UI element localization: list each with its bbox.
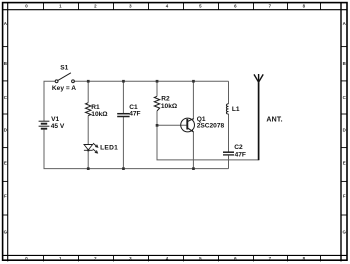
node top R2 xyxy=(156,80,159,83)
svg-text:R2: R2 xyxy=(161,96,170,103)
svg-text:G: G xyxy=(4,230,8,235)
wire emitter xyxy=(192,132,194,169)
ruler numbers top xyxy=(25,4,305,9)
wire switch right to top rail end at L1 xyxy=(74,80,229,82)
ruler letters left xyxy=(4,21,8,235)
resistor R2 xyxy=(154,96,159,111)
antenna xyxy=(254,74,263,160)
transistor Q1 xyxy=(181,118,195,132)
svg-text:10kΩ: 10kΩ xyxy=(161,103,178,110)
svg-text:Key = A: Key = A xyxy=(52,85,76,92)
resistor R1 xyxy=(86,103,91,116)
node bottom C1 xyxy=(122,167,125,170)
switch S1 xyxy=(55,73,74,83)
svg-text:D: D xyxy=(4,127,7,132)
svg-text:V1: V1 xyxy=(51,116,59,123)
node top R1 xyxy=(87,80,90,83)
node bottom R1 xyxy=(87,167,90,170)
wire C1 branch xyxy=(122,81,124,113)
svg-text:G: G xyxy=(342,230,346,235)
capacitor C2 xyxy=(223,152,234,155)
svg-text:10kΩ: 10kΩ xyxy=(91,111,108,118)
wire C2 bottom xyxy=(228,156,230,169)
wire battery bottom to bottom rail xyxy=(44,130,229,169)
ruler tick separators top xyxy=(44,3,321,10)
ruler tick separators bottom xyxy=(44,255,321,261)
capacitor C1 xyxy=(117,114,129,117)
node bottom emitter xyxy=(192,167,195,170)
ruler tick separators left xyxy=(3,47,8,215)
svg-text:F: F xyxy=(4,193,7,198)
LED1 junction blob xyxy=(87,149,89,151)
svg-text:C2: C2 xyxy=(234,144,243,151)
svg-text:F: F xyxy=(343,193,346,198)
svg-text:S1: S1 xyxy=(60,64,68,71)
wire L1 branch xyxy=(228,81,230,104)
node base R2 xyxy=(156,124,159,127)
svg-text:45 V: 45 V xyxy=(51,123,65,130)
node top C1 xyxy=(122,80,125,83)
wire battery top to switch xyxy=(44,81,55,121)
svg-text:D: D xyxy=(343,127,346,132)
svg-text:B: B xyxy=(4,61,7,66)
svg-text:L1: L1 xyxy=(232,106,240,113)
svg-text:LED1: LED1 xyxy=(100,145,118,152)
svg-text:ANT.: ANT. xyxy=(266,116,282,123)
ruler letters right xyxy=(342,21,346,235)
wire base xyxy=(157,124,187,126)
svg-text:2SC2078: 2SC2078 xyxy=(197,123,225,130)
wire R2 bottom to base node to antenna xyxy=(157,111,259,160)
svg-text:E: E xyxy=(343,160,346,165)
node top collector xyxy=(192,80,195,83)
svg-text:47F: 47F xyxy=(129,111,140,118)
inductor L1 xyxy=(226,104,228,114)
svg-text:E: E xyxy=(4,160,7,165)
wire R1 branch xyxy=(87,81,89,103)
svg-text:47F: 47F xyxy=(235,151,246,158)
LED1 xyxy=(84,143,98,153)
ruler tick separators right xyxy=(341,47,347,215)
svg-text:B: B xyxy=(343,61,346,66)
battery V1 xyxy=(39,121,50,129)
wire collector xyxy=(192,81,194,119)
wire R2 branch top xyxy=(156,81,158,96)
ruler numbers bottom xyxy=(25,256,305,261)
